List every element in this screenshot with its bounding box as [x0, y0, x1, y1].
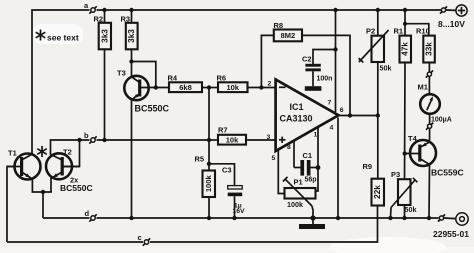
transistor T1 — [7, 154, 41, 180]
resistor R1 — [400, 10, 412, 63]
contact d — [89, 214, 96, 221]
wire T3 collector — [131, 62, 133, 78]
contact b — [89, 136, 96, 143]
svg-text:M1: M1 — [418, 83, 428, 92]
wire R5 bottom — [208, 197, 210, 218]
node R1 top — [403, 8, 407, 12]
svg-text:1: 1 — [314, 131, 318, 138]
wire top supply rail right segment — [97, 9, 442, 11]
capacitor C3 — [209, 164, 242, 218]
svg-text:3k3: 3k3 — [127, 29, 136, 43]
transistor T3 — [124, 76, 169, 100]
meter M1 — [420, 94, 440, 114]
svg-text:100k: 100k — [287, 200, 303, 209]
svg-text:R5: R5 — [195, 155, 205, 164]
potentiometer P3 — [391, 178, 418, 218]
wire R7 to pin 3 — [246, 139, 276, 141]
wire pin 5 to P1 — [278, 151, 284, 194]
node R10 bend — [403, 22, 407, 26]
svg-text:10k: 10k — [226, 83, 239, 92]
svg-text:R6: R6 — [217, 74, 227, 83]
node C3 branch — [207, 162, 211, 166]
resistor R5 — [203, 171, 216, 198]
node R3 top — [129, 8, 133, 12]
svg-text:10k: 10k — [226, 136, 239, 145]
node output to P2/R9 column — [376, 113, 380, 117]
svg-text:8M2: 8M2 — [281, 31, 296, 40]
svg-text:R2: R2 — [94, 14, 104, 23]
svg-text:3k3: 3k3 — [100, 29, 109, 43]
ground under C2 — [305, 86, 322, 91]
op-amp IC1 — [276, 80, 339, 152]
node pin4 on 0V — [336, 216, 340, 220]
wire 0V d-line left — [43, 217, 90, 219]
node T4 base — [403, 151, 407, 155]
resistor R3 — [126, 10, 138, 49]
wire emitters common — [32, 178, 52, 218]
wire mid divider vertical — [208, 88, 210, 171]
svg-text:7: 7 — [328, 99, 332, 106]
svg-text:c: c — [138, 233, 142, 242]
node T3 emitter on 0V — [129, 216, 133, 220]
node T2 base to b-line — [77, 138, 81, 142]
svg-text:3: 3 — [267, 134, 271, 141]
wire R4 to R6 — [202, 87, 218, 89]
wire contact to T4 emitter — [429, 128, 431, 142]
svg-text:T3: T3 — [117, 69, 126, 78]
contact meter bottom — [426, 123, 433, 130]
svg-text:100µA: 100µA — [431, 117, 452, 124]
svg-text:5: 5 — [272, 155, 276, 162]
svg-text:BC550C: BC550C — [135, 104, 170, 114]
node T4 collector on 0V — [427, 216, 431, 220]
svg-text:56p: 56p — [305, 177, 317, 184]
wire collector-base tie of T3 — [132, 62, 156, 88]
svg-text:8: 8 — [287, 144, 291, 151]
node R2 top — [102, 8, 106, 12]
contact c — [143, 238, 150, 245]
svg-text:CA3130: CA3130 — [279, 114, 312, 124]
svg-text:50k: 50k — [405, 205, 417, 214]
svg-text:4: 4 — [330, 125, 334, 132]
svg-text:b: b — [84, 131, 89, 140]
contact meter top — [426, 71, 433, 78]
node T3 collector-base tie — [129, 59, 133, 63]
svg-text:R7: R7 — [218, 126, 228, 135]
node P3 wiper on 0V — [388, 216, 392, 220]
wire output — [339, 115, 378, 117]
resistor R4 — [169, 82, 202, 92]
wire R10 bottom to meter contact — [428, 63, 430, 72]
svg-text:R8: R8 — [274, 21, 284, 30]
svg-text:C2: C2 — [302, 55, 312, 64]
svg-text:BC550C: BC550C — [60, 183, 93, 193]
resistor R10 — [405, 24, 435, 63]
node pin7 rail — [333, 8, 337, 12]
svg-text:100n: 100n — [317, 76, 333, 83]
svg-text:T1: T1 — [8, 149, 17, 158]
resistor R7 — [209, 135, 246, 145]
wire T2 base up to b-line — [64, 140, 80, 167]
node pin2 feedback junction — [259, 85, 263, 89]
wire pin 8 down — [293, 141, 295, 168]
wire c-line — [7, 241, 143, 243]
svg-text:6: 6 — [340, 107, 344, 114]
resistor R6 — [218, 82, 248, 92]
svg-text:R3: R3 — [121, 14, 131, 23]
wire pin 4 down to 0V — [337, 118, 339, 219]
node C3 on 0V — [232, 216, 236, 220]
svg-text:P2: P2 — [366, 27, 375, 36]
node output feedback — [348, 113, 352, 117]
wire pin 1 down — [315, 127, 319, 192]
wire b-line right segment — [97, 139, 210, 141]
node P3 bottom on 0V — [402, 216, 406, 220]
node T3 base — [154, 85, 158, 89]
wire T3 emitter down to 0V rail — [131, 100, 133, 218]
transistor T2 — [46, 153, 80, 179]
node C1 right / pin1 — [316, 165, 321, 170]
wire contact to meter — [428, 76, 430, 94]
svg-text:2: 2 — [268, 81, 272, 88]
svg-text:47k: 47k — [401, 42, 410, 56]
wire c-line right to R9 — [150, 206, 378, 243]
contact a — [89, 6, 96, 13]
matched-pair asterisk — [37, 146, 47, 157]
node emitters — [41, 190, 45, 194]
node R5 on 0V — [207, 216, 211, 220]
wire output to R9 — [377, 116, 379, 179]
svg-text:see text: see text — [47, 33, 79, 43]
svg-text:R10: R10 — [416, 27, 430, 36]
capacitor C2 — [305, 50, 335, 87]
capacitor C1 — [294, 160, 318, 176]
potentiometer P1 — [283, 177, 316, 218]
svg-text:6k8: 6k8 — [179, 83, 192, 92]
node P1 wiper ground on 0V — [310, 215, 315, 220]
svg-text:IC1: IC1 — [289, 102, 303, 112]
svg-text:16V: 16V — [233, 208, 246, 215]
node R4-R6 junction — [207, 85, 211, 89]
contact supply — [440, 6, 456, 13]
battery + terminal — [456, 5, 467, 16]
contact 0V terminal — [438, 214, 456, 221]
svg-text:d: d — [85, 209, 90, 218]
resistor R8 — [261, 30, 350, 116]
svg-text:R9: R9 — [363, 162, 373, 171]
svg-text:22955-01: 22955-01 — [433, 229, 469, 239]
wire R2 bottom to b-line — [104, 49, 106, 140]
svg-text:22k: 22k — [373, 185, 382, 199]
svg-text:BC559C: BC559C — [431, 168, 464, 178]
wire R1 bottom to T4 base / P3 — [404, 63, 407, 180]
see-text asterisk — [36, 30, 46, 41]
svg-text:R1: R1 — [394, 27, 404, 36]
svg-text:50k: 50k — [380, 64, 392, 73]
wire top supply rail left segment — [32, 10, 90, 154]
svg-text:P3: P3 — [391, 170, 400, 179]
wire T4 collector down to 0V — [428, 165, 431, 219]
wire meter to contact — [429, 114, 431, 124]
svg-text:33k: 33k — [425, 42, 434, 56]
svg-text:C3: C3 — [222, 166, 232, 175]
wire 0V d-line right — [97, 217, 439, 219]
svg-text:T2: T2 — [63, 148, 72, 157]
svg-text:100k: 100k — [204, 174, 213, 192]
svg-text:T4: T4 — [408, 134, 418, 143]
svg-text:8...10V: 8...10V — [438, 19, 465, 29]
ground under P1 wiper — [299, 218, 325, 229]
node P2 top — [376, 8, 380, 12]
wire pin7 supply column — [335, 10, 337, 112]
terminal 0V — [456, 213, 468, 225]
wire R3 bottom — [131, 49, 133, 61]
wire T1 base to left rail down to c-line — [7, 167, 15, 243]
svg-text:P1: P1 — [294, 178, 303, 187]
resistor R2 — [99, 10, 111, 49]
potentiometer P2 — [359, 10, 389, 116]
node C2 branch — [333, 47, 337, 51]
node b-line / R7 junction — [207, 138, 211, 142]
svg-text:C1: C1 — [303, 151, 313, 160]
transistor T4 — [405, 140, 436, 166]
resistor R9 — [372, 179, 385, 206]
wire b-line from T2 collector — [51, 140, 90, 155]
node R2 bottom on b-line — [102, 138, 106, 142]
svg-text:R4: R4 — [168, 74, 178, 83]
wire R6 to pin 2 — [248, 87, 276, 89]
